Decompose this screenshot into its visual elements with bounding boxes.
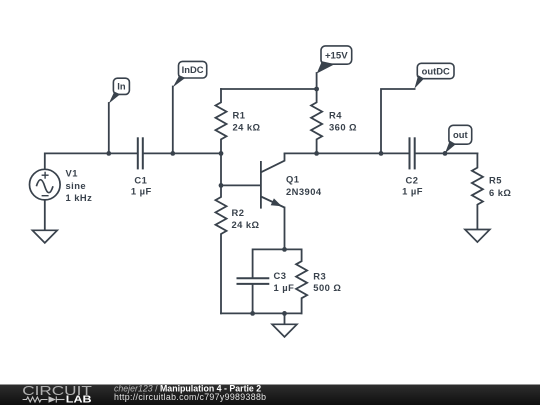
label R5 value <box>489 174 511 198</box>
resistor R1 <box>216 89 227 153</box>
node C3 bottom junction <box>250 311 255 316</box>
resistor R3 <box>296 249 307 313</box>
wire R1 bottom to base node <box>220 153 222 185</box>
capacitor C3 <box>237 278 270 284</box>
wire emitter to parallel node <box>284 208 286 250</box>
ground (emitter) <box>272 324 297 337</box>
svg-text:C2: C2 <box>406 174 419 185</box>
source V1 <box>30 169 61 200</box>
wire C2 right to R5 <box>415 152 478 154</box>
node outDC junction <box>379 151 384 156</box>
ground (V1) <box>32 230 57 243</box>
wire In label to node <box>108 103 110 153</box>
wire base node to transistor <box>221 184 260 186</box>
node emitter junction <box>282 247 287 252</box>
capacitor C2 <box>410 137 415 169</box>
flag label InDC <box>173 61 207 87</box>
wire C1 right to R1 column <box>143 152 221 154</box>
svg-text:500 Ω: 500 Ω <box>313 282 341 293</box>
svg-text:1 µF: 1 µF <box>131 186 152 197</box>
node InDC junction <box>170 151 175 156</box>
svg-text:C3: C3 <box>274 270 287 281</box>
svg-text:360 Ω: 360 Ω <box>329 122 357 133</box>
svg-text:out: out <box>453 129 468 140</box>
svg-text:1 µF: 1 µF <box>274 282 295 293</box>
svg-text:R4: R4 <box>329 110 342 121</box>
label C3 value <box>274 270 295 293</box>
wire main rail left: V1 top to C1 <box>45 153 138 169</box>
label Q1 value <box>286 174 322 198</box>
svg-text:LAB: LAB <box>66 394 92 405</box>
svg-text:R2: R2 <box>232 207 245 218</box>
node +15V junction <box>314 87 319 92</box>
flag label +15V <box>317 46 352 74</box>
svg-text:1 kHz: 1 kHz <box>66 192 93 203</box>
transistor Q1 <box>261 153 285 208</box>
svg-text:R1: R1 <box>233 110 246 121</box>
resistor R4 <box>311 89 322 153</box>
wire ground stem emitter <box>284 313 286 324</box>
svg-text:Q1: Q1 <box>286 174 299 185</box>
svg-text:2N3904: 2N3904 <box>286 186 322 197</box>
label C1 value <box>131 174 152 196</box>
svg-text:http://circuitlab.com/c797y998: http://circuitlab.com/c797y9989388b <box>114 392 266 402</box>
label C2 value <box>402 174 423 196</box>
wire parallel top rail <box>253 249 302 278</box>
node R4 bottom junction <box>314 151 319 156</box>
label R1 value <box>233 110 261 133</box>
label R2 value <box>232 207 260 230</box>
svg-text:R3: R3 <box>313 270 326 281</box>
transistor Q1 emitter arrow <box>271 198 282 206</box>
svg-text:24 kΩ: 24 kΩ <box>233 122 261 133</box>
svg-text:sine: sine <box>66 180 87 191</box>
svg-text:V1: V1 <box>66 168 78 179</box>
node base junction <box>219 183 224 188</box>
label R4 value <box>329 110 357 133</box>
node In junction <box>106 151 111 156</box>
svg-text:C1: C1 <box>134 174 147 185</box>
resistor R2 <box>216 185 227 313</box>
flag label In <box>109 78 130 103</box>
svg-text:+15V: +15V <box>325 51 348 62</box>
wire +15V label to node <box>316 73 318 89</box>
node out junction <box>443 151 448 156</box>
wire outDC branch <box>381 89 415 153</box>
svg-text:24 kΩ: 24 kΩ <box>232 219 260 230</box>
svg-text:6 kΩ: 6 kΩ <box>489 187 511 198</box>
svg-text:outDC: outDC <box>422 65 450 76</box>
svg-text:In: In <box>117 81 126 92</box>
wire V1 bottom to ground <box>44 200 46 230</box>
svg-text:InDC: InDC <box>182 64 204 75</box>
footer logo mini schematic <box>23 396 65 402</box>
resistor R5 <box>472 153 483 229</box>
wire top rail R1 to R4 <box>221 88 317 90</box>
label R3 value <box>313 270 341 293</box>
svg-text:1 µF: 1 µF <box>402 186 423 197</box>
capacitor C3 bottom lead <box>252 284 254 313</box>
node R1 bottom junction <box>219 151 224 156</box>
ground (R5) <box>465 230 490 243</box>
svg-text:R5: R5 <box>489 174 502 185</box>
flag label out <box>445 125 472 153</box>
wire InDC label to node <box>172 87 174 154</box>
wire collector rail <box>285 152 410 154</box>
node ground junction <box>282 311 287 316</box>
label V1 value <box>66 168 93 203</box>
flag label outDC <box>414 63 454 88</box>
capacitor C1 <box>138 137 143 169</box>
wire bottom rail <box>221 312 302 314</box>
